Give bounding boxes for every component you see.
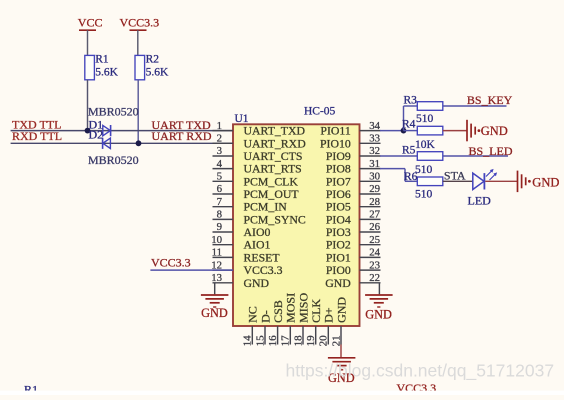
wire VCC3.3 to pin12 <box>150 269 233 271</box>
svg-text:5.6K: 5.6K <box>146 67 169 79</box>
pin 10 (AIO1) <box>211 234 270 252</box>
svg-text:510: 510 <box>415 189 433 201</box>
svg-text:GND: GND <box>201 306 228 320</box>
pin 31 (PIO8) <box>326 158 381 176</box>
svg-text:MBR0520: MBR0520 <box>88 153 139 167</box>
svg-text:32: 32 <box>369 145 380 157</box>
svg-text:GND: GND <box>244 276 270 290</box>
pin 23 (PIO0) <box>326 259 381 277</box>
svg-text:LED: LED <box>468 193 492 207</box>
pin 12 (VCC3.3) <box>211 259 282 277</box>
pin 21 (GND) <box>330 297 348 347</box>
svg-text:3: 3 <box>217 145 222 157</box>
svg-text:13: 13 <box>211 272 222 284</box>
pin 25 (PIO2) <box>326 234 381 252</box>
svg-text:23: 23 <box>369 259 380 271</box>
pin 2 (UART_RXD) <box>213 133 307 151</box>
resistor R5 510 <box>402 145 443 177</box>
bottom white strip <box>0 391 564 395</box>
pin 34 (PIO11) <box>320 120 380 138</box>
pin 24 (PIO1) <box>326 247 381 265</box>
svg-text:GND: GND <box>325 276 351 290</box>
node junction pin34/R3/R4 <box>401 128 407 134</box>
svg-text:8: 8 <box>217 209 222 221</box>
op IC U1 HC-05 body <box>233 124 360 326</box>
pin 3 (UART_CTS) <box>213 145 303 163</box>
pin 22 (GND) <box>325 272 380 290</box>
wire R6 to LED <box>443 180 473 182</box>
pin 33 (PIO10) <box>320 133 381 151</box>
wire pin34 to junction <box>380 130 404 132</box>
svg-text:6: 6 <box>217 183 223 195</box>
svg-text:33: 33 <box>369 133 380 145</box>
svg-text:25: 25 <box>369 234 380 246</box>
svg-text:11: 11 <box>212 247 222 259</box>
node junction RXD/R2 <box>136 140 142 146</box>
svg-text:22: 22 <box>369 272 380 284</box>
svg-text:34: 34 <box>369 120 380 132</box>
label U1 <box>235 113 249 125</box>
wire pin32 to R5 <box>380 155 417 157</box>
pin 7 (PCM_IN) <box>213 196 288 214</box>
pin 16 (CSB) <box>267 300 285 346</box>
svg-text:27: 27 <box>369 209 380 221</box>
svg-text:510: 510 <box>415 164 433 176</box>
svg-text:2: 2 <box>217 133 222 145</box>
power port VCC3.3 <box>120 16 160 56</box>
pin 9 (AIO0) <box>213 221 271 239</box>
wire R2 to RXD node <box>137 80 139 144</box>
svg-text:10K: 10K <box>415 139 436 151</box>
resistor R2 <box>135 54 169 80</box>
wire pin21 to GND <box>340 345 342 358</box>
svg-text:28: 28 <box>369 196 380 208</box>
ground GND (pin22) <box>365 295 393 322</box>
pin 8 (PCM_SYNC) <box>213 209 306 227</box>
svg-text:9: 9 <box>217 221 222 233</box>
svg-text:29: 29 <box>369 183 380 195</box>
svg-text:24: 24 <box>369 247 380 259</box>
svg-text:MBR0520: MBR0520 <box>88 105 139 119</box>
node junction TXD/R1 <box>85 128 91 134</box>
svg-text:5.6K: 5.6K <box>95 67 118 79</box>
svg-text:STA: STA <box>444 169 466 183</box>
svg-text:5: 5 <box>217 171 222 183</box>
ground GND (pin13) <box>201 295 229 320</box>
net label BS_KEY <box>467 93 513 107</box>
pin 4 (UART_RTS) <box>213 158 302 176</box>
svg-text:HC-05: HC-05 <box>304 106 336 118</box>
pin 29 (PIO6) <box>326 183 381 201</box>
ground GND (R4) <box>467 120 508 142</box>
wire R4 to GND <box>443 130 467 132</box>
wire R3 to BS_KEY <box>443 105 507 107</box>
svg-text:R3: R3 <box>404 95 418 107</box>
pin 19 (CLK) <box>305 299 323 347</box>
diode D2 MBR0520 <box>103 138 111 149</box>
wire LED to GND <box>485 180 517 182</box>
label LED <box>468 193 492 207</box>
power port VCC3.3 (cut off bottom) <box>397 381 437 395</box>
pin 13 (GND) <box>211 272 269 290</box>
wire junction to R4 <box>404 130 418 132</box>
net label UART RXD <box>152 129 212 143</box>
ground GND (pin21) <box>328 358 356 385</box>
diode D1 MBR0520 <box>103 125 111 136</box>
svg-text:R4: R4 <box>402 119 416 131</box>
svg-text:BS_LED: BS_LED <box>469 144 513 158</box>
svg-text:31: 31 <box>369 158 380 170</box>
svg-text:VCC: VCC <box>78 16 103 30</box>
svg-text:20: 20 <box>318 335 330 347</box>
svg-text:510: 510 <box>416 113 434 125</box>
net label TXD TTL <box>12 118 61 132</box>
label MBR0520 for D1 <box>88 105 139 119</box>
svg-text:https://blog.csdn.net/qq_51712: https://blog.csdn.net/qq_51712037 <box>286 360 555 381</box>
pin 30 (PIO7) <box>326 171 381 189</box>
pin 20 (D+) <box>318 307 336 346</box>
pin 27 (PIO4) <box>326 209 381 227</box>
svg-text:1: 1 <box>217 120 222 132</box>
svg-text:VCC3.3: VCC3.3 <box>120 16 160 30</box>
label HC-05 <box>304 106 336 118</box>
svg-text:14: 14 <box>242 335 254 347</box>
resistor R6 510 <box>404 171 443 201</box>
svg-text:GND: GND <box>481 124 508 138</box>
wire junction to R3 <box>404 106 418 131</box>
svg-text:4: 4 <box>217 158 223 170</box>
svg-text:UART RXD: UART RXD <box>152 129 212 143</box>
svg-text:R5: R5 <box>402 145 416 157</box>
pin 17 (MOSI) <box>280 293 298 347</box>
wire TXD TTL to pin 1 <box>11 130 233 132</box>
power port VCC <box>78 16 103 56</box>
net label STA <box>444 169 466 183</box>
label D1 <box>89 118 104 132</box>
wire pin31 to R6 <box>380 169 417 182</box>
label D2 <box>89 128 104 142</box>
ground GND (LED) <box>518 171 560 193</box>
pin 18 (MISO) <box>292 293 310 347</box>
net label UART TXD <box>152 118 212 132</box>
svg-text:R2: R2 <box>146 54 160 66</box>
pin 6 (PCM_OUT) <box>213 183 300 201</box>
watermark <box>286 360 555 381</box>
net label VCC3.3 (pin12) <box>151 255 191 269</box>
svg-text:GND: GND <box>334 297 348 323</box>
svg-text:VCC3.3: VCC3.3 <box>151 255 191 269</box>
svg-text:30: 30 <box>369 171 380 183</box>
pin 1 (UART_TXD) <box>213 120 306 138</box>
net label BS_LED <box>469 144 513 158</box>
wire RXD TTL to pin 2 <box>11 142 233 144</box>
pin 15 (D-) <box>254 310 272 346</box>
label MBR0520 for D2 <box>88 153 139 167</box>
pin 32 (PIO9) <box>326 145 381 163</box>
svg-text:16: 16 <box>267 335 279 347</box>
svg-text:R6: R6 <box>404 171 418 183</box>
wire pin22 to GND <box>378 283 380 295</box>
svg-text:17: 17 <box>280 335 292 347</box>
svg-text:19: 19 <box>305 335 317 347</box>
pin 5 (PCM_CLK) <box>213 171 299 189</box>
svg-text:GND: GND <box>532 175 559 189</box>
svg-text:7: 7 <box>217 196 223 208</box>
LED diode <box>473 169 497 190</box>
pin 14 (NC) <box>242 306 260 346</box>
wire R1 to TXD node <box>87 80 89 131</box>
net label RXD TTL <box>12 129 62 143</box>
svg-text:15: 15 <box>254 335 266 347</box>
svg-text:26: 26 <box>369 221 380 233</box>
pin 11 (RESET) <box>212 247 281 265</box>
svg-text:GND: GND <box>365 308 392 322</box>
wire pin13 to GND <box>214 283 216 295</box>
wire R5 to BS_LED <box>443 155 508 157</box>
svg-text:18: 18 <box>292 335 304 347</box>
resistor R4 10K <box>402 119 443 151</box>
svg-text:D2: D2 <box>89 128 104 142</box>
svg-text:10: 10 <box>211 234 222 246</box>
label R1 (cut off bottom) <box>24 382 38 396</box>
svg-text:BS_KEY: BS_KEY <box>467 93 513 107</box>
resistor R3 510 <box>404 95 443 126</box>
pin 26 (PIO3) <box>326 221 381 239</box>
svg-text:RXD TTL: RXD TTL <box>12 129 62 143</box>
resistor R1 <box>85 54 119 80</box>
pin 28 (PIO5) <box>326 196 381 214</box>
svg-text:R1: R1 <box>95 54 109 66</box>
